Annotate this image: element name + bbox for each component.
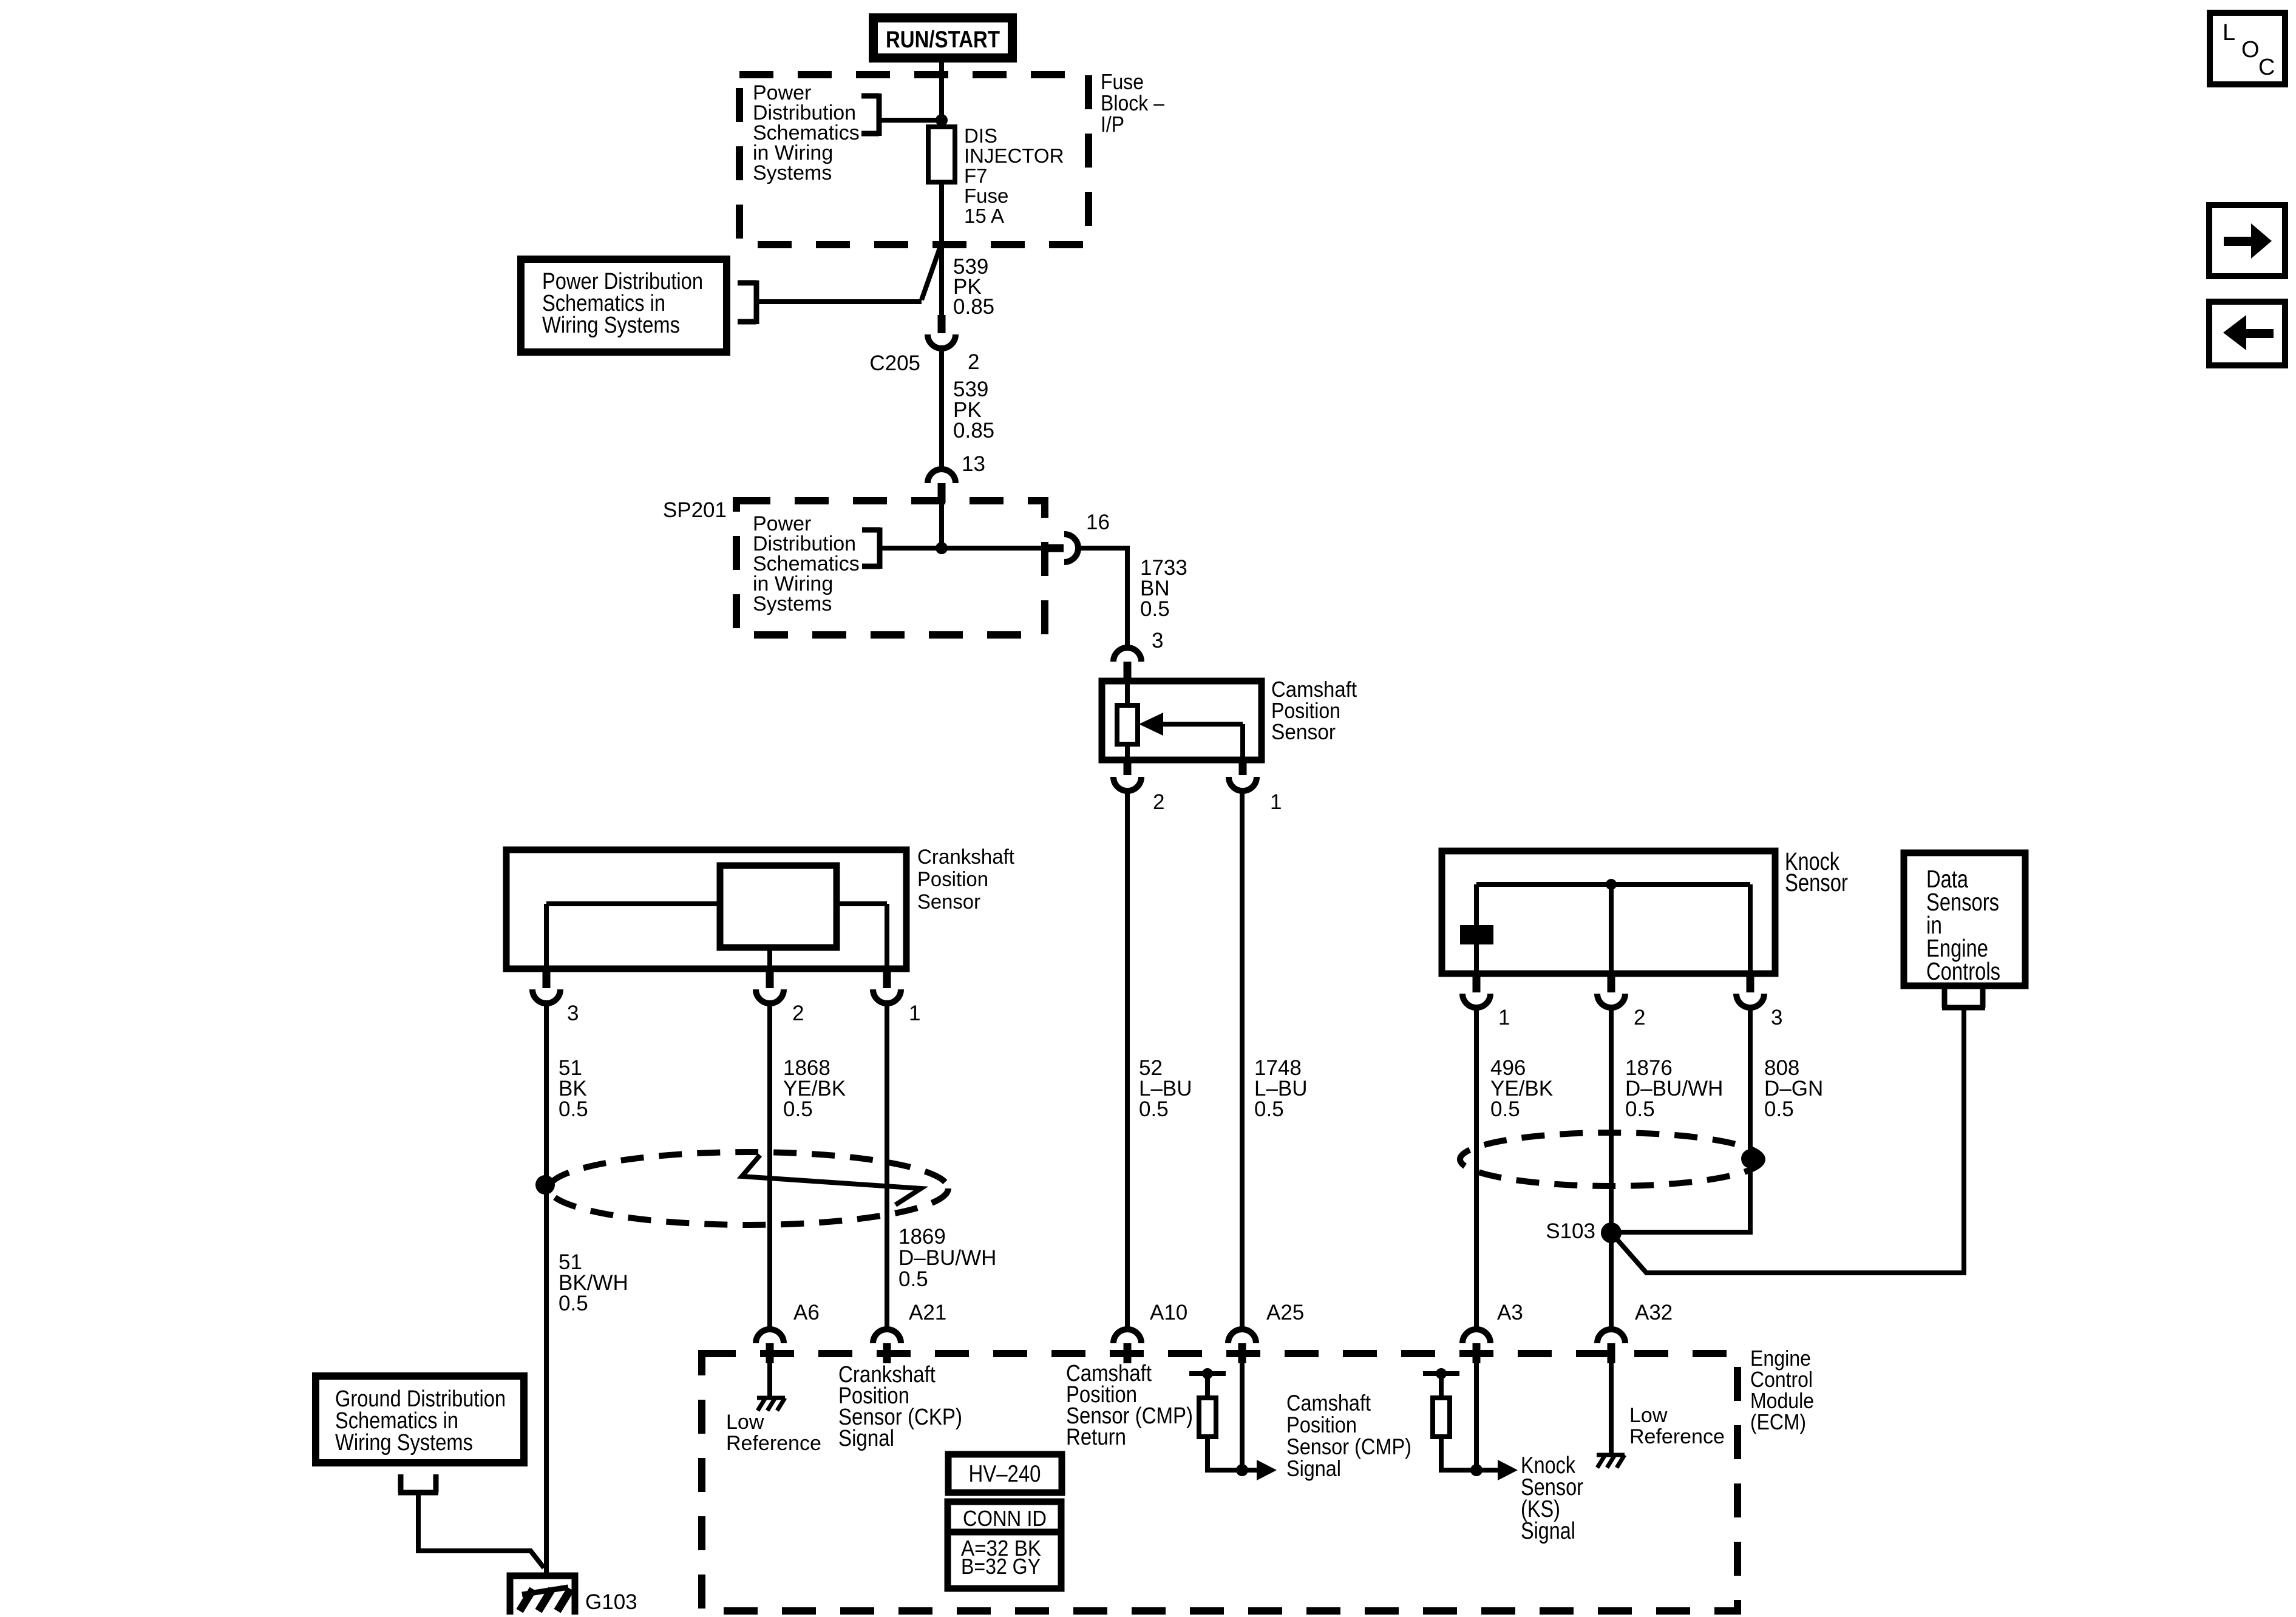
forward arrow box	[2209, 205, 2285, 276]
knock sensor internal rail	[1476, 882, 1750, 887]
ECM pin A10 connector	[1113, 1329, 1141, 1343]
svg-text:RUN/START: RUN/START	[886, 27, 1000, 53]
svg-text:L: L	[2223, 20, 2235, 46]
knock pin 3 connector	[1747, 974, 1754, 992]
svg-text:F7: F7	[964, 164, 988, 187]
connector 16	[1045, 544, 1064, 552]
crankshaft pin 3 connector	[543, 969, 551, 988]
ground distribution reference box	[316, 1376, 524, 1463]
svg-text:A10: A10	[1150, 1301, 1187, 1324]
svg-text:0.5: 0.5	[1254, 1097, 1284, 1121]
ECM pin A3 connector	[1462, 1329, 1490, 1343]
svg-text:Reference: Reference	[1629, 1425, 1725, 1448]
svg-text:Signal: Signal	[1286, 1456, 1341, 1481]
wire 13 to SP201 junction	[939, 503, 944, 548]
fuse F7 DIS INJECTOR 15A	[928, 127, 955, 182]
wire 52 L-BU	[1125, 791, 1130, 1329]
connector C205	[938, 315, 946, 333]
svg-text:Return: Return	[1066, 1425, 1126, 1450]
svg-text:Fuse: Fuse	[964, 185, 1008, 207]
harness ellipse left	[549, 1152, 948, 1225]
camshaft sensor element	[1125, 681, 1130, 705]
svg-text:I/P: I/P	[1101, 112, 1124, 137]
power distribution reference box	[521, 259, 727, 352]
A25 internal wire	[1240, 1363, 1245, 1470]
CMP resistor to junction	[1207, 1437, 1242, 1470]
svg-text:0.85: 0.85	[953, 419, 994, 442]
svg-text:Sensor: Sensor	[1785, 869, 1848, 897]
ECM pin A21 connector	[873, 1329, 901, 1343]
svg-text:0.5: 0.5	[1140, 597, 1170, 621]
svg-text:Systems: Systems	[753, 161, 832, 185]
back arrow box	[2209, 302, 2285, 365]
splice S103	[1601, 1222, 1622, 1243]
crankshaft pin 2 connector	[766, 969, 774, 988]
engine control module box	[702, 1354, 1737, 1611]
knock sensor element	[1474, 884, 1479, 925]
RUN/START power feed box	[869, 13, 1017, 63]
wire 1748 L-BU	[1240, 791, 1245, 1329]
wire 51 BK	[544, 1003, 549, 1573]
svg-text:CONN ID: CONN ID	[963, 1506, 1047, 1531]
KS signal junction	[1470, 1464, 1483, 1476]
svg-text:Low: Low	[726, 1411, 764, 1434]
svg-text:Sensor: Sensor	[1271, 719, 1336, 744]
connector 3	[1113, 648, 1141, 662]
crankshaft pin 1 connector	[883, 969, 891, 988]
junction dot on wire 808	[1741, 1149, 1761, 1168]
SP201 splice pack box	[736, 501, 1045, 635]
svg-text:DIS: DIS	[964, 124, 997, 147]
KS pullup rail	[1423, 1371, 1459, 1376]
wire 496 YE/BK	[1474, 1008, 1479, 1329]
camshaft sensor arrow	[1162, 722, 1243, 727]
svg-text:Sensor: Sensor	[917, 890, 980, 914]
connector 13	[928, 469, 956, 483]
A6 ground symbol	[757, 1396, 785, 1400]
svg-text:13: 13	[962, 452, 985, 476]
CMP signal arrow	[1242, 1468, 1258, 1473]
svg-text:1: 1	[909, 1002, 920, 1025]
svg-text:2: 2	[968, 350, 979, 374]
svg-text:0.5: 0.5	[559, 1292, 588, 1315]
ECM pin A25 connector	[1228, 1329, 1256, 1343]
svg-text:0.5: 0.5	[1764, 1097, 1794, 1121]
splice dot on wire 51	[535, 1175, 555, 1195]
CMP pullup rail	[1189, 1371, 1226, 1376]
svg-text:0.5: 0.5	[783, 1097, 813, 1121]
wire from reference box	[756, 299, 922, 304]
svg-text:Camshaft: Camshaft	[1286, 1391, 1371, 1415]
svg-text:A32: A32	[1635, 1301, 1673, 1324]
HV-240 box	[948, 1454, 1062, 1493]
svg-text:0.5: 0.5	[1490, 1097, 1520, 1121]
svg-text:1: 1	[1498, 1006, 1510, 1029]
ECM pin A32 connector	[1597, 1329, 1625, 1343]
harness ellipse right	[1460, 1133, 1762, 1186]
svg-text:0.5: 0.5	[898, 1267, 928, 1291]
svg-text:2: 2	[792, 1002, 804, 1025]
crankshaft position sensor box	[506, 850, 906, 969]
svg-text:3: 3	[567, 1002, 579, 1025]
svg-text:A6: A6	[793, 1301, 820, 1324]
SP201 bracket	[862, 527, 880, 569]
CMP signal junction	[1236, 1464, 1248, 1476]
svg-text:0.85: 0.85	[953, 295, 994, 319]
svg-text:INJECTOR: INJECTOR	[964, 144, 1064, 167]
svg-text:3: 3	[1771, 1006, 1782, 1029]
svg-text:1869: 1869	[898, 1225, 946, 1249]
svg-text:C205: C205	[869, 351, 920, 375]
data sensors reference box	[1904, 853, 2025, 986]
svg-text:2: 2	[1153, 790, 1164, 814]
CONN ID table	[948, 1502, 1061, 1532]
wire S103 to data sensors	[1611, 1008, 1964, 1273]
CMP pullup resistor	[1199, 1398, 1216, 1437]
wire SP201 horizontal	[880, 546, 1045, 551]
svg-text:A25: A25	[1266, 1301, 1304, 1324]
power distribution reference bracket	[861, 93, 879, 136]
crankshaft sensor internal wiring	[546, 901, 720, 906]
svg-text:Crankshaft: Crankshaft	[917, 846, 1015, 869]
svg-text:Wiring Systems: Wiring Systems	[542, 313, 680, 338]
svg-text:HV–240: HV–240	[969, 1461, 1041, 1487]
wire ground box to G103	[418, 1493, 544, 1568]
wire 1869 D-BU/WH	[885, 1003, 889, 1329]
svg-text:Position: Position	[1286, 1412, 1357, 1437]
knock pin 2 connector	[1608, 974, 1615, 992]
knock sensor box	[1442, 851, 1775, 974]
svg-text:2: 2	[1634, 1006, 1645, 1029]
svg-text:S103: S103	[1546, 1219, 1595, 1243]
wire C205 to 13	[939, 347, 944, 469]
ground G103	[510, 1576, 575, 1615]
ground box bracket	[398, 1474, 438, 1493]
bracket of reference box	[738, 280, 756, 324]
svg-text:B=32 GY: B=32 GY	[961, 1554, 1041, 1579]
wire 1868 YE/BK	[767, 1003, 772, 1329]
ECM pin A6 connector	[756, 1329, 784, 1343]
svg-text:Controls: Controls	[1926, 957, 2000, 985]
KS signal arrow	[1476, 1468, 1498, 1473]
svg-text:Reference: Reference	[726, 1432, 821, 1455]
crankshaft sensor inner box	[720, 866, 837, 947]
svg-text:Sensor (CMP): Sensor (CMP)	[1286, 1434, 1411, 1459]
svg-text:0.5: 0.5	[1625, 1097, 1655, 1121]
wire 1876 D-BU/WH	[1609, 1008, 1614, 1329]
Fuse Block - I/P box	[739, 75, 1089, 245]
svg-text:Position: Position	[917, 868, 988, 891]
knock pin 1 connector	[1473, 974, 1481, 992]
KS resistor to junction	[1441, 1437, 1476, 1470]
A6 internal wire	[767, 1363, 772, 1397]
wire RUN/START to fuse	[939, 63, 944, 316]
svg-text:Systems: Systems	[753, 592, 832, 615]
twist symbol	[742, 1155, 921, 1205]
svg-text:0.5: 0.5	[1139, 1097, 1169, 1121]
data sensors bracket	[1942, 989, 1985, 1008]
svg-text:15 A: 15 A	[964, 205, 1004, 227]
A32 internal wire	[1609, 1363, 1614, 1454]
svg-text:0.5: 0.5	[559, 1097, 588, 1121]
KS pullup resistor	[1433, 1398, 1450, 1437]
svg-text:SP201: SP201	[663, 498, 727, 522]
camshaft pin 1 connector	[1239, 760, 1247, 775]
junction in fuse block	[936, 114, 948, 126]
svg-text:G103: G103	[585, 1590, 637, 1614]
svg-text:Wiring Systems: Wiring Systems	[335, 1430, 473, 1456]
A3 internal wire	[1474, 1363, 1479, 1470]
LOC reference box	[2210, 13, 2285, 84]
svg-text:3: 3	[1152, 629, 1163, 653]
svg-text:Signal: Signal	[838, 1426, 894, 1451]
svg-text:(ECM): (ECM)	[1750, 1409, 1806, 1434]
SP201 junction dot	[936, 542, 948, 554]
svg-text:D–BU/WH: D–BU/WH	[898, 1246, 996, 1270]
svg-text:Low: Low	[1629, 1404, 1668, 1427]
A32 ground symbol	[1597, 1453, 1625, 1457]
wire 16 to camshaft sensor	[1078, 548, 1127, 648]
camshaft pin 2 connector	[1124, 760, 1132, 775]
svg-text:Signal: Signal	[1521, 1518, 1575, 1544]
svg-text:1: 1	[1270, 790, 1282, 814]
camshaft position sensor box	[1102, 681, 1262, 760]
svg-text:16: 16	[1086, 510, 1110, 534]
svg-text:A21: A21	[909, 1301, 946, 1324]
svg-text:A3: A3	[1497, 1301, 1523, 1324]
svg-text:O: O	[2241, 37, 2260, 63]
wire 808 D-GN	[1614, 1008, 1750, 1232]
svg-text:C: C	[2258, 55, 2275, 80]
